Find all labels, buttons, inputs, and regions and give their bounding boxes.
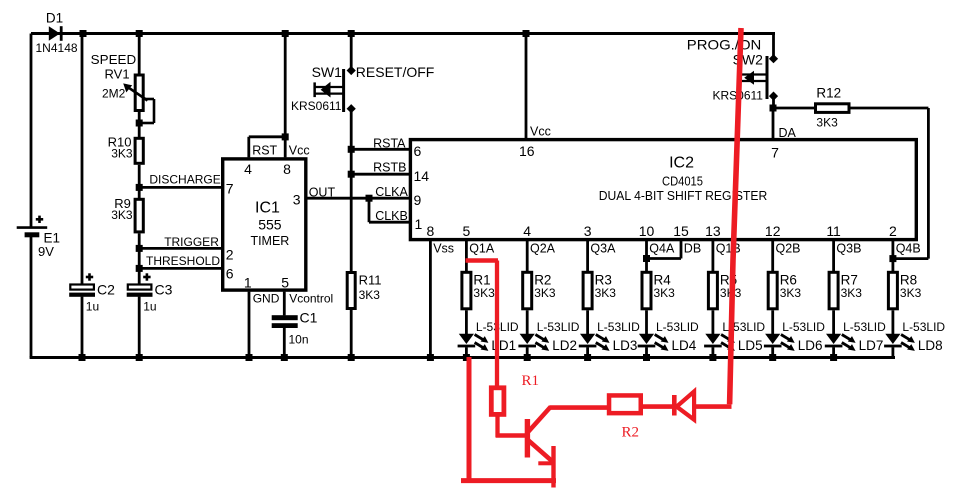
svg-text:R11: R11 bbox=[359, 272, 382, 287]
svg-text:LD7: LD7 bbox=[859, 338, 884, 353]
svg-text:8: 8 bbox=[427, 223, 435, 239]
svg-text:10: 10 bbox=[639, 223, 655, 239]
svg-text:Q3B: Q3B bbox=[836, 242, 861, 256]
svg-text:9V: 9V bbox=[38, 244, 54, 259]
svg-text:C2: C2 bbox=[97, 282, 115, 298]
svg-text:3K3: 3K3 bbox=[111, 147, 133, 161]
svg-text:RSTB: RSTB bbox=[373, 161, 406, 175]
svg-text:1: 1 bbox=[415, 216, 423, 232]
svg-text:3: 3 bbox=[584, 223, 592, 239]
svg-text:RV1: RV1 bbox=[105, 67, 130, 82]
svg-text:1N4148: 1N4148 bbox=[36, 41, 78, 55]
svg-text:R1: R1 bbox=[522, 373, 540, 389]
svg-text:Q1B: Q1B bbox=[716, 242, 741, 256]
svg-text:R2: R2 bbox=[622, 425, 640, 441]
svg-text:3K3: 3K3 bbox=[780, 286, 802, 300]
svg-text:GND: GND bbox=[253, 291, 280, 305]
svg-text:Q2B: Q2B bbox=[776, 242, 801, 256]
svg-text:DUAL 4-BIT SHIFT REGISTER: DUAL 4-BIT SHIFT REGISTER bbox=[599, 189, 768, 203]
svg-text:Q1A: Q1A bbox=[469, 242, 495, 256]
svg-text:R3: R3 bbox=[595, 272, 612, 287]
svg-text:16: 16 bbox=[519, 143, 535, 159]
svg-text:1u: 1u bbox=[143, 300, 156, 314]
svg-text:10n: 10n bbox=[289, 333, 309, 347]
svg-text:7: 7 bbox=[226, 180, 234, 196]
svg-text:DISCHARGE: DISCHARGE bbox=[149, 173, 220, 187]
svg-text:LD6: LD6 bbox=[798, 338, 823, 353]
svg-text:5: 5 bbox=[281, 274, 289, 290]
svg-text:RST: RST bbox=[252, 144, 277, 158]
svg-text:3K3: 3K3 bbox=[359, 288, 381, 302]
svg-text:R2: R2 bbox=[534, 272, 551, 287]
svg-text:R8: R8 bbox=[900, 272, 917, 287]
svg-text:R7: R7 bbox=[841, 272, 858, 287]
svg-text:1u: 1u bbox=[86, 300, 99, 314]
svg-text:OUT: OUT bbox=[309, 186, 336, 200]
svg-text:9: 9 bbox=[414, 192, 422, 208]
svg-text:Vcontrol: Vcontrol bbox=[289, 291, 333, 305]
svg-text:CD4015: CD4015 bbox=[662, 175, 703, 189]
svg-text:12: 12 bbox=[765, 223, 781, 239]
svg-text:3K3: 3K3 bbox=[595, 286, 617, 300]
svg-text:1: 1 bbox=[244, 274, 252, 290]
svg-text:Vss: Vss bbox=[433, 242, 454, 256]
svg-text:R1: R1 bbox=[473, 272, 490, 287]
svg-text:R4: R4 bbox=[654, 272, 672, 287]
svg-text:14: 14 bbox=[414, 168, 430, 184]
svg-text:IC1: IC1 bbox=[255, 200, 280, 217]
svg-text:RSTA: RSTA bbox=[373, 136, 406, 150]
svg-text:7: 7 bbox=[771, 144, 779, 160]
svg-text:3K3: 3K3 bbox=[816, 115, 838, 129]
svg-text:2: 2 bbox=[889, 223, 897, 239]
svg-text:Vcc: Vcc bbox=[530, 124, 551, 138]
svg-text:Q4A: Q4A bbox=[649, 242, 675, 256]
svg-text:L-53LID: L-53LID bbox=[537, 320, 580, 334]
svg-text:L-53LID: L-53LID bbox=[597, 320, 640, 334]
svg-text:CLKB: CLKB bbox=[375, 209, 408, 223]
svg-text:13: 13 bbox=[705, 223, 721, 239]
svg-text:5: 5 bbox=[463, 223, 471, 239]
svg-text:Q2A: Q2A bbox=[530, 242, 556, 256]
svg-text:C1: C1 bbox=[300, 310, 318, 326]
svg-text:TIMER: TIMER bbox=[250, 234, 289, 248]
svg-text:PROG./ON: PROG./ON bbox=[687, 37, 762, 53]
svg-text:RESET/OFF: RESET/OFF bbox=[356, 64, 435, 80]
svg-text:R12: R12 bbox=[816, 86, 841, 101]
svg-text:3: 3 bbox=[293, 192, 301, 208]
svg-text:L-53LID: L-53LID bbox=[656, 320, 699, 334]
svg-text:LD4: LD4 bbox=[672, 338, 697, 353]
svg-text:11: 11 bbox=[826, 223, 841, 239]
svg-text:IC2: IC2 bbox=[669, 155, 694, 172]
svg-text:Vcc: Vcc bbox=[289, 144, 310, 158]
svg-text:LD3: LD3 bbox=[613, 338, 638, 353]
svg-text:15: 15 bbox=[673, 223, 689, 239]
svg-text:3K3: 3K3 bbox=[654, 286, 676, 300]
svg-text:LD8: LD8 bbox=[918, 338, 943, 353]
svg-text:DB: DB bbox=[684, 242, 701, 256]
svg-text:L-53LID: L-53LID bbox=[902, 320, 945, 334]
svg-text:3K3: 3K3 bbox=[473, 286, 495, 300]
svg-text:Q3A: Q3A bbox=[590, 242, 616, 256]
svg-text:LD2: LD2 bbox=[552, 338, 577, 353]
svg-text:LD5: LD5 bbox=[738, 338, 763, 353]
svg-text:D1: D1 bbox=[46, 11, 63, 26]
svg-text:C3: C3 bbox=[155, 282, 173, 298]
svg-text:KRS0611: KRS0611 bbox=[291, 99, 342, 113]
svg-text:4: 4 bbox=[523, 223, 531, 239]
svg-text:8: 8 bbox=[283, 161, 291, 177]
svg-text:3K3: 3K3 bbox=[900, 286, 922, 300]
svg-text:6: 6 bbox=[414, 143, 422, 159]
svg-text:6: 6 bbox=[226, 266, 234, 282]
svg-text:3K3: 3K3 bbox=[111, 208, 133, 222]
svg-text:CLKA: CLKA bbox=[375, 185, 408, 199]
svg-text:THRESHOLD: THRESHOLD bbox=[146, 254, 220, 268]
svg-text:2: 2 bbox=[226, 246, 234, 262]
svg-text:3K3: 3K3 bbox=[534, 286, 556, 300]
svg-text:L-53LID: L-53LID bbox=[843, 320, 886, 334]
svg-text:4: 4 bbox=[244, 161, 252, 177]
svg-text:3K3: 3K3 bbox=[841, 286, 863, 300]
svg-text:SPEED: SPEED bbox=[91, 52, 137, 67]
svg-text:555: 555 bbox=[258, 217, 282, 233]
svg-text:Q4B: Q4B bbox=[896, 242, 921, 256]
svg-text:SW1: SW1 bbox=[312, 64, 343, 80]
svg-text:2M2: 2M2 bbox=[102, 87, 126, 101]
svg-text:R6: R6 bbox=[780, 272, 797, 287]
svg-text:L-53LID: L-53LID bbox=[782, 320, 825, 334]
svg-text:DA: DA bbox=[779, 126, 797, 140]
svg-text:TRIGGER: TRIGGER bbox=[164, 235, 219, 249]
